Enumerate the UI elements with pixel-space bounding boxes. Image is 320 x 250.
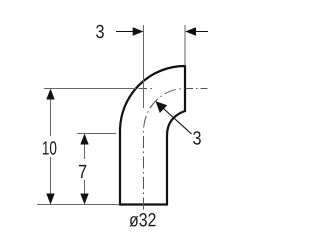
centerline horizontal stub right of outlet: [186, 88, 208, 90]
dimension 7: arrows: [80, 134, 88, 145]
leader for bend radius 3: line + arrow: [163, 108, 192, 134]
ext line right of top dim (outlet face): [184, 25, 186, 66]
centerline vertical leg + bend arc (dash-dot): [144, 89, 186, 210]
centerline horizontal dash inside pipe: [139, 88, 153, 90]
dimension 10: shafts: [50, 91, 52, 202]
dimension 10: text: [43, 141, 56, 154]
ref line mid (for dim 7): [77, 133, 116, 135]
dimension 3 (top): left line + arrow: [116, 31, 141, 33]
dimension 7: shafts: [84, 135, 86, 202]
dimension 7: text: [79, 165, 86, 178]
leader text 3: [193, 131, 201, 144]
dimension 10: arrows: [46, 89, 54, 100]
ref line top (outlet axis, for dim 10): [44, 88, 136, 90]
label ø32: [129, 213, 155, 227]
pipe bend outline: [120, 66, 185, 205]
dimension 3 (top): right line + arrow: [188, 31, 208, 33]
dimension 3 (top): text: [96, 25, 104, 38]
ext line left of top dim (leg axis): [143, 25, 145, 108]
ref line bottom: [37, 204, 119, 206]
